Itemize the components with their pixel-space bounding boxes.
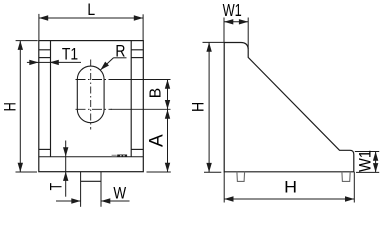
svg-text:T: T xyxy=(48,183,66,190)
svg-text:L: L xyxy=(87,1,95,20)
svg-text:H: H xyxy=(1,102,20,111)
svg-text:B: B xyxy=(147,88,164,98)
svg-text:W1: W1 xyxy=(357,150,375,172)
svg-text:H: H xyxy=(284,177,297,197)
svg-text:W: W xyxy=(113,184,126,203)
svg-text:A: A xyxy=(146,134,167,147)
svg-text:T1: T1 xyxy=(62,45,78,64)
svg-text:W1: W1 xyxy=(223,1,242,20)
svg-text:H: H xyxy=(189,102,207,112)
svg-text:R: R xyxy=(115,42,125,61)
